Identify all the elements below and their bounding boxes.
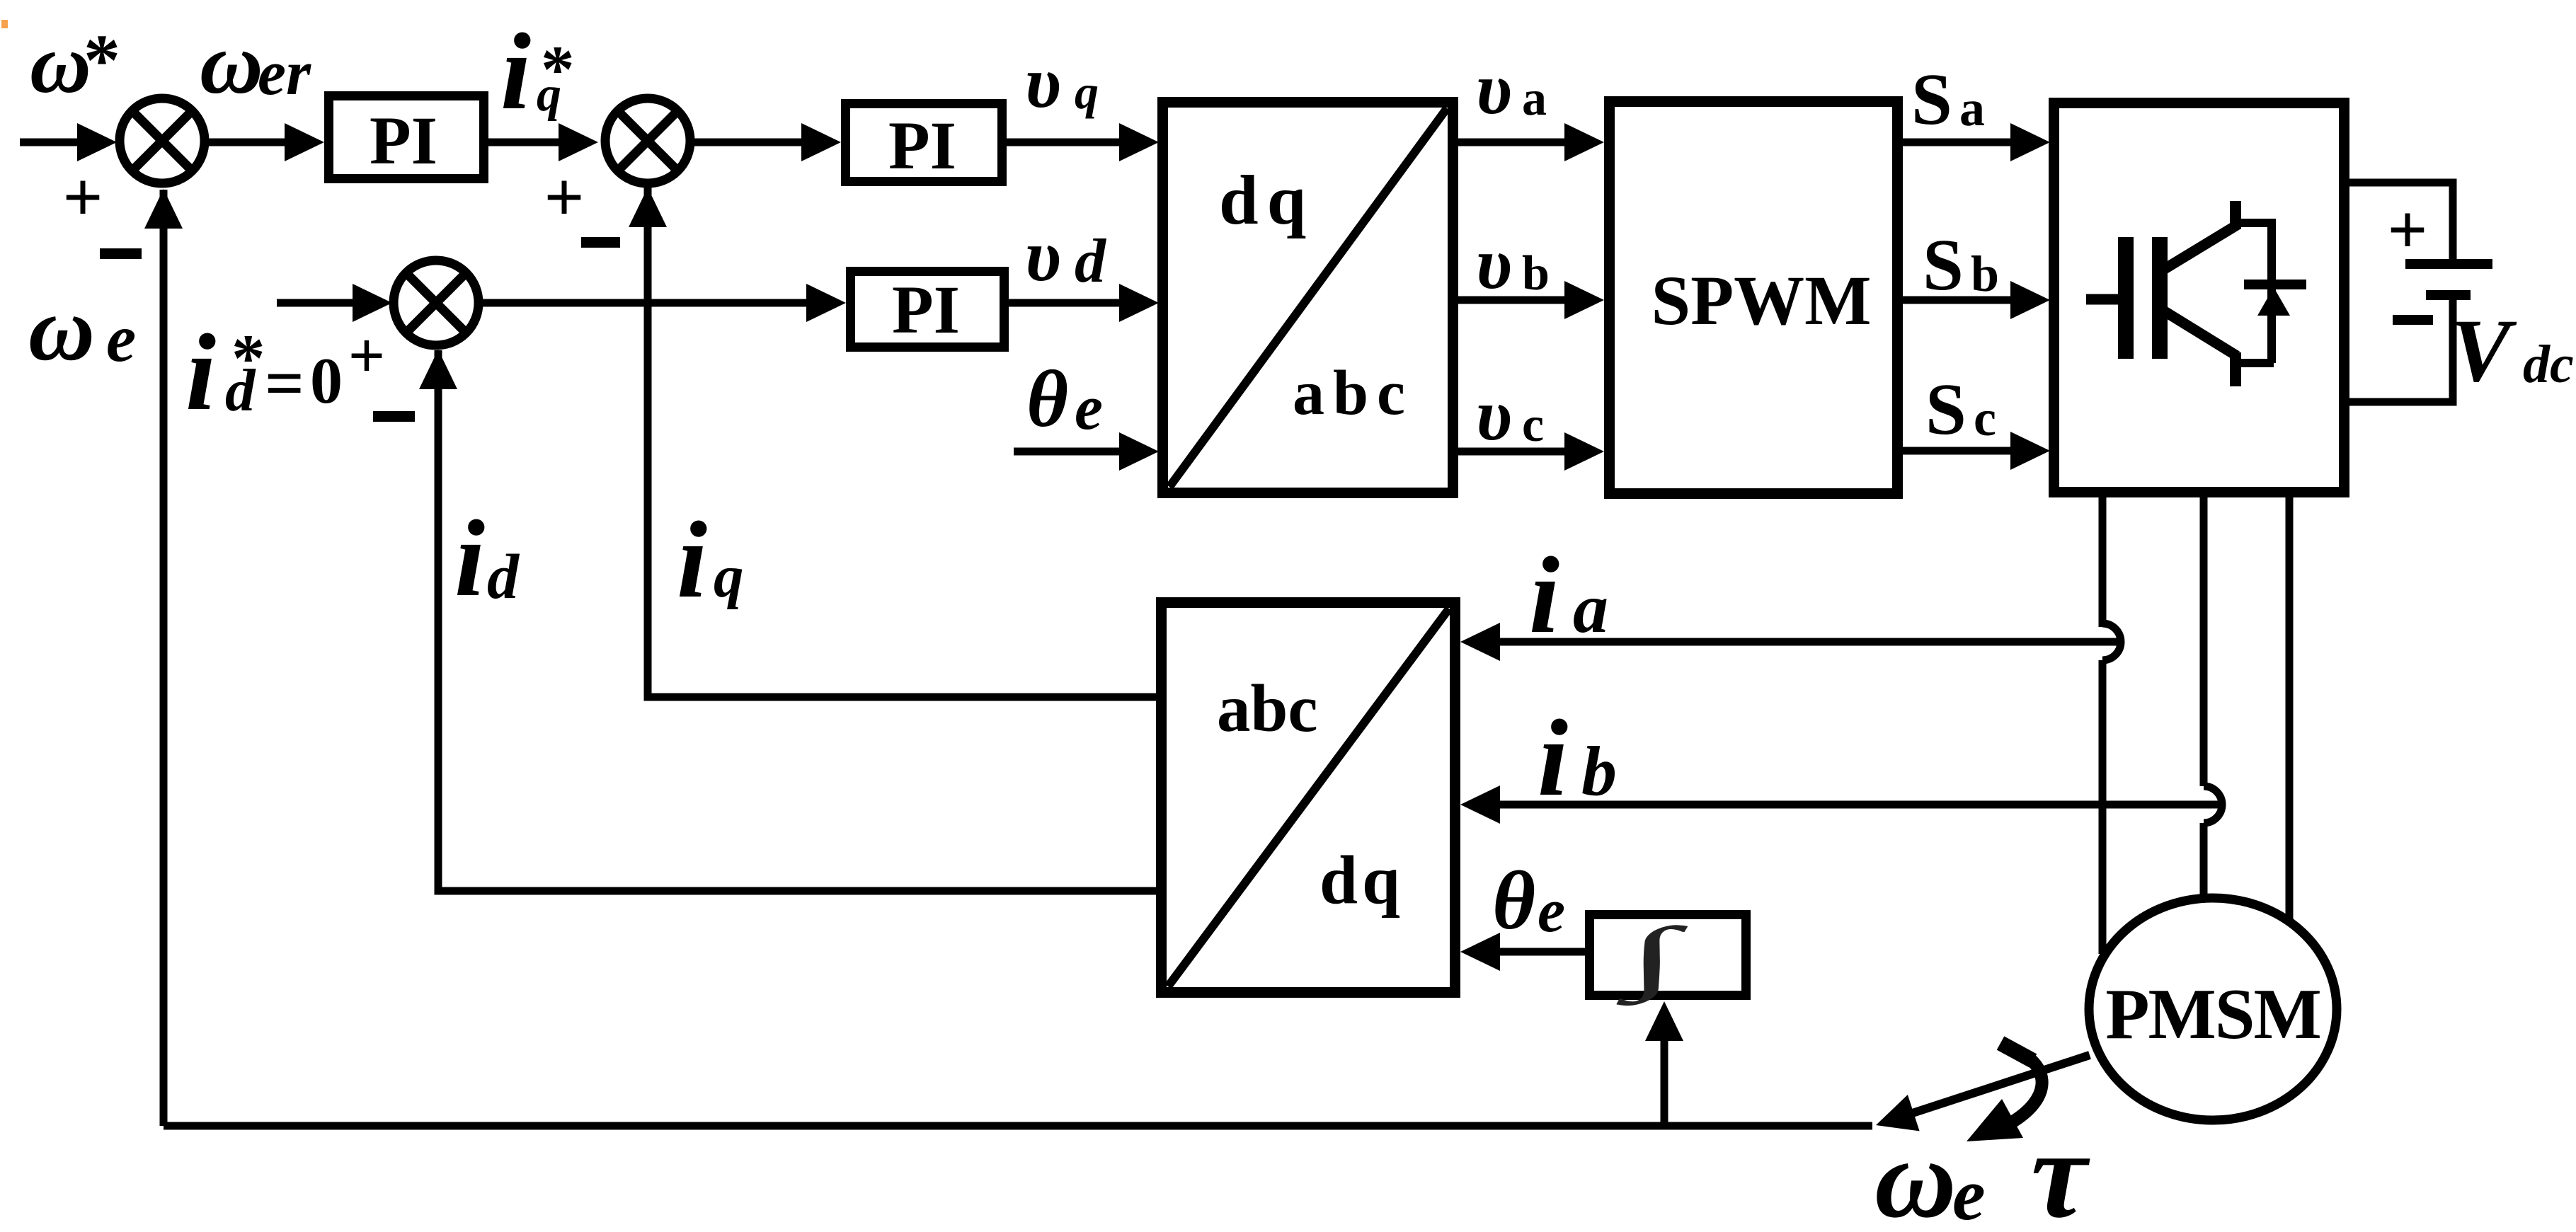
arrow into summing junction S1: [77, 123, 117, 161]
wire PI2 to dq-abc: [1007, 139, 1133, 146]
svg-text:c: c: [1974, 390, 1996, 447]
svg-text:+: +: [2388, 190, 2428, 269]
label PMSM: [2105, 974, 2320, 1054]
hop of phase a over ia: [2102, 623, 2121, 660]
wire id* input: [277, 299, 361, 307]
svg-text:PI: PI: [370, 103, 437, 178]
arrow speed tap: [1876, 1095, 1920, 1131]
IGBT emitter stub: [2230, 352, 2241, 386]
arrow ia into abc-dq: [1460, 623, 1500, 661]
label - at S3: [373, 411, 415, 422]
svg-text:υ: υ: [1476, 48, 1512, 129]
arrow ib into abc-dq: [1460, 785, 1500, 824]
decor: [1, 20, 8, 28]
wire theta_e to dq-abc: [1014, 448, 1133, 456]
arrow into integrator: [1645, 1001, 1683, 1041]
wire vb: [1458, 297, 1579, 304]
svg-text:PMSM: PMSM: [2105, 974, 2320, 1054]
label Sa: [1911, 59, 1985, 140]
svg-text:i: i: [185, 311, 216, 433]
block PI3 d-current controller: [851, 272, 1004, 347]
label + at S1: [63, 158, 103, 236]
label + at S2: [544, 158, 585, 236]
block integrator: [1590, 915, 1746, 996]
svg-text:i: i: [1538, 697, 1568, 819]
svg-text:PI: PI: [892, 272, 960, 347]
svg-text:dq: dq: [1219, 161, 1315, 239]
summing junction S1: [120, 98, 205, 183]
svg-text:τ: τ: [2031, 1104, 2090, 1232]
label abc in transform: [1293, 358, 1414, 428]
wire inverter to battery top: [2349, 183, 2453, 260]
svg-text:S: S: [1923, 224, 1964, 306]
label SPWM: [1651, 261, 1871, 340]
wire ia feedback: [1476, 638, 2124, 646]
wire speed to integrator: [1661, 1011, 1668, 1126]
svg-text:q: q: [1075, 65, 1099, 119]
arrow iq into S2: [629, 188, 667, 227]
label omega_e left: [28, 278, 136, 380]
svg-text:e: e: [1538, 877, 1565, 945]
arrow into PI1: [285, 123, 324, 161]
IGBT top link: [2231, 219, 2274, 227]
svg-text:ω: ω: [30, 16, 91, 110]
arrow into S3: [353, 284, 392, 322]
arrow vb into SPWM: [1564, 281, 1604, 319]
label - at S2: [581, 237, 620, 248]
wire vc: [1458, 448, 1579, 456]
svg-text:+: +: [63, 158, 103, 236]
svg-text:∫: ∫: [1616, 911, 1688, 1006]
svg-text:+: +: [544, 158, 585, 236]
svg-text:dc: dc: [2523, 335, 2574, 394]
svg-text:υ: υ: [1025, 215, 1061, 297]
label omega_e shaft: [1874, 1115, 1986, 1232]
arrow Sa into inverter: [2010, 123, 2050, 161]
wire ib feedback: [1476, 801, 2220, 809]
wire Sb: [1903, 297, 2025, 304]
svg-text:i: i: [1529, 534, 1559, 656]
wire Sc: [1903, 447, 2025, 455]
wire phase b lower: [2200, 823, 2208, 899]
label Vdc: [2451, 301, 2574, 401]
label integral sign: [1616, 911, 1688, 1006]
svg-text:0: 0: [310, 345, 343, 417]
block inverter: [2054, 103, 2345, 493]
svg-text:a: a: [1959, 80, 1985, 137]
label ia: [1529, 534, 1608, 656]
svg-text:er: er: [258, 38, 311, 108]
svg-text:a: a: [1522, 71, 1547, 126]
arrow Sb into inverter: [2010, 281, 2050, 319]
IGBT gate bar: [2118, 237, 2134, 359]
rotation arrow of shaft: [1967, 1043, 2042, 1141]
wire phase a lower: [2099, 660, 2107, 954]
wire phase c: [2286, 493, 2294, 920]
wire S2 to PI2: [693, 139, 814, 146]
label iq* reference: [500, 11, 575, 132]
svg-text:e: e: [1952, 1153, 1986, 1232]
svg-text:SPWM: SPWM: [1651, 261, 1871, 340]
label - battery: [2393, 315, 2433, 325]
svg-text:d: d: [225, 357, 256, 424]
label dq in transform: [1219, 161, 1315, 239]
arrow into dq-abc vq: [1119, 123, 1159, 161]
diode anode triangle: [2257, 287, 2290, 316]
diode branch wire: [2267, 219, 2276, 363]
svg-text:υ: υ: [1476, 374, 1512, 456]
label vd: [1025, 215, 1107, 297]
svg-text:ω: ω: [200, 15, 263, 112]
svg-text:d: d: [487, 542, 520, 612]
arrow omega_e into S1: [144, 189, 183, 229]
label id*=0+: [185, 311, 385, 433]
arrow va into SPWM: [1564, 123, 1604, 161]
wire battery to inverter bottom: [2349, 299, 2453, 402]
svg-text:υ: υ: [1476, 223, 1512, 304]
label - at S1: [100, 248, 142, 259]
svg-text:PI: PI: [888, 108, 956, 183]
label + battery: [2388, 190, 2428, 269]
label vb: [1476, 223, 1550, 304]
wire phase a upper: [2099, 493, 2107, 627]
arrow into PI3: [806, 284, 846, 322]
svg-text:i: i: [677, 499, 707, 621]
IGBT body bar: [2152, 237, 2168, 359]
wire speed feedback left vertical: [160, 190, 168, 1126]
block abc-dq transform: [1162, 603, 1455, 993]
svg-text:b: b: [1581, 732, 1617, 810]
svg-text:a: a: [1573, 569, 1608, 647]
shaft line: [1884, 1055, 2090, 1122]
wire speed feedback bottom: [164, 1122, 1872, 1130]
svg-text:e: e: [1075, 373, 1103, 443]
summing junction S3: [394, 260, 479, 345]
block SPWM modulator: [1610, 102, 1898, 494]
machine PMSM: [2089, 898, 2337, 1120]
wire iq vertical: [644, 188, 652, 683]
battery positive plate: [2405, 259, 2492, 269]
label iq feedback: [677, 499, 744, 621]
svg-text:e: e: [106, 301, 136, 376]
summing junction S2: [605, 98, 690, 183]
IGBT emitter diagonal: [2161, 309, 2237, 356]
svg-text:i: i: [500, 11, 531, 132]
svg-text:q: q: [537, 67, 561, 122]
svg-text:ω: ω: [1874, 1115, 1957, 1232]
wire PI3 to dq-abc: [1009, 299, 1133, 307]
IGBT gate lead: [2086, 294, 2119, 305]
svg-text:S: S: [1911, 59, 1952, 140]
label theta_e top: [1026, 354, 1103, 444]
arrow theta into abc-dq: [1460, 933, 1500, 971]
diagonal of abc-dq: [1168, 609, 1449, 986]
svg-text:ω: ω: [28, 278, 95, 380]
label Sc: [1925, 369, 1996, 450]
battery negative plate: [2426, 290, 2471, 300]
svg-text:c: c: [1522, 398, 1544, 452]
arrow into S2: [559, 123, 598, 161]
label PI3: [892, 272, 960, 347]
label omega*: [30, 16, 120, 110]
svg-text:θ: θ: [1026, 354, 1068, 444]
svg-text:V: V: [2451, 301, 2517, 401]
svg-text:+: +: [348, 319, 385, 391]
diagonal of dq-abc: [1169, 108, 1447, 487]
svg-text:dq: dq: [1320, 842, 1404, 918]
IGBT collector diagonal: [2161, 225, 2237, 271]
svg-text:b: b: [1971, 246, 1999, 302]
arrow vc into SPWM: [1564, 432, 1604, 471]
label id feedback: [454, 497, 520, 619]
svg-text:θ: θ: [1492, 854, 1535, 947]
wire theta_e feedback: [1476, 948, 1585, 956]
svg-text:q: q: [714, 543, 744, 610]
arrow into PI2: [801, 123, 841, 161]
label vc: [1476, 374, 1544, 456]
wire Sa: [1903, 139, 2025, 146]
IGBT collector stub: [2230, 201, 2241, 229]
label va: [1476, 48, 1547, 129]
diode cathode bar: [2244, 280, 2306, 289]
label theta_e bottom: [1492, 854, 1565, 947]
label Sb: [1923, 224, 1999, 306]
wire PI1 to S2: [488, 139, 566, 146]
arrow Sc into inverter: [2010, 432, 2050, 470]
arrow into dq-abc theta: [1119, 432, 1159, 471]
wire phase b upper: [2200, 493, 2208, 786]
svg-text:=: =: [265, 345, 304, 422]
arrow id into S3: [419, 350, 457, 389]
wire va: [1458, 139, 1579, 146]
wire S3 to PI3: [481, 299, 821, 307]
wire S1 to PI1: [207, 139, 297, 146]
svg-text:S: S: [1925, 369, 1967, 450]
label vq: [1025, 42, 1099, 123]
block PI2 q-current controller: [846, 104, 1002, 182]
label dq in abc-dq: [1320, 842, 1404, 918]
label omega_er: [200, 15, 311, 112]
svg-text:b: b: [1522, 246, 1550, 301]
wire iq feedback: [648, 679, 1156, 697]
block dq-abc transform: [1163, 103, 1453, 493]
svg-text:abc: abc: [1217, 671, 1318, 746]
IGBT bottom link: [2231, 359, 2274, 367]
label abc in abc-dq: [1217, 671, 1318, 746]
wire id vertical: [435, 350, 442, 877]
svg-text:*: *: [84, 20, 120, 101]
label PI1: [370, 103, 437, 178]
wire omega* input: [20, 139, 106, 146]
label PI2: [888, 108, 956, 183]
hop of phase b over ib: [2204, 786, 2222, 823]
arrow into dq-abc vd: [1119, 284, 1159, 322]
label tau shaft: [2031, 1104, 2090, 1232]
label ib: [1538, 697, 1617, 819]
block PI1 speed controller: [329, 96, 484, 179]
svg-text:abc: abc: [1293, 358, 1414, 428]
svg-text:υ: υ: [1025, 42, 1061, 123]
wire id feedback: [438, 870, 1156, 891]
svg-text:d: d: [1075, 227, 1107, 296]
svg-text:i: i: [454, 497, 485, 619]
